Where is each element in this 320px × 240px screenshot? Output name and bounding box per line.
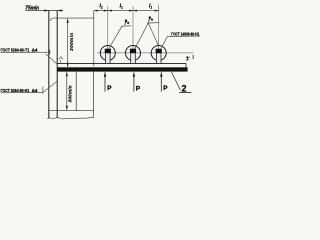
dimension line top (stud spacing) bbox=[94, 10, 159, 12]
beam end thickness callout dot bbox=[186, 56, 188, 58]
weld label 1 leader bbox=[46, 54, 58, 64]
svg-text:P: P bbox=[107, 85, 112, 92]
weld label 2 tick bbox=[42, 87, 44, 94]
dimension 75min line bbox=[26, 10, 64, 12]
svg-text:2: 2 bbox=[182, 83, 187, 93]
svg-text:75min: 75min bbox=[25, 6, 39, 12]
stud 1 head bbox=[105, 49, 111, 53]
weld mark A bbox=[125, 19, 130, 25]
weld shelf A bbox=[121, 25, 131, 27]
weld leader A (stud 1) bbox=[109, 26, 122, 48]
wall plate right edge bbox=[56, 11, 58, 119]
arrowheads 300min lower bbox=[66, 72, 68, 110]
arrowheads 300min upper bbox=[67, 18, 69, 67]
weld leader B to stud 3 bbox=[148, 23, 159, 46]
stud 2 circle bbox=[126, 46, 141, 61]
wall plate left edge bbox=[48, 11, 50, 119]
svg-text:Δ4: Δ4 bbox=[32, 88, 38, 93]
weld label right shelf bbox=[167, 35, 199, 37]
stud 3 head bbox=[156, 49, 162, 53]
gusset edge left bbox=[75, 72, 77, 111]
stud 3 body bbox=[156, 53, 161, 64]
arrowheads 75min (outside) bbox=[44, 9, 62, 11]
stud 2 centerline bbox=[132, 6, 134, 63]
load arrow P2 bbox=[133, 72, 135, 91]
svg-text:P: P bbox=[163, 85, 168, 92]
wall bottom break squiggle bbox=[47, 117, 93, 119]
weld shelf B bbox=[147, 22, 159, 24]
item 2 leader bbox=[172, 72, 181, 90]
svg-text:300min: 300min bbox=[69, 33, 74, 51]
svg-text:ГОСТ 5264-80-Н1: ГОСТ 5264-80-Н1 bbox=[1, 88, 30, 93]
weld mark B bbox=[149, 16, 154, 22]
weld leader B to stud 2 bbox=[135, 23, 149, 49]
beam end thickness callout tick bbox=[192, 55, 194, 60]
break line bottom bbox=[49, 110, 94, 112]
beam end thickness callout arrow bbox=[186, 56, 189, 60]
load arrow P3 bbox=[160, 72, 162, 91]
weld label 2 shelf bbox=[1, 92, 43, 94]
beam flange plate (blackened section) bbox=[57, 67, 187, 71]
break line top (with hook) bbox=[51, 18, 94, 21]
item 2 underline bbox=[179, 91, 191, 93]
svg-text:ГОСТ 14806-80-Н1: ГОСТ 14806-80-Н1 bbox=[171, 31, 199, 36]
weld label 1 arrow mark bbox=[59, 57, 63, 60]
stud 2 body bbox=[131, 53, 136, 64]
stud 2 head bbox=[130, 49, 136, 53]
dimension 300min upper line bbox=[67, 18, 69, 67]
weld label 1 tick bbox=[49, 49, 51, 54]
gusset edge right bbox=[93, 72, 95, 118]
stud 1 circle bbox=[100, 46, 115, 61]
stud 1 body bbox=[106, 53, 111, 64]
beam end edge bbox=[185, 63, 187, 67]
weld label right leader bbox=[161, 36, 167, 48]
stud 3 centerline bbox=[158, 5, 160, 64]
stud 1 centerline bbox=[107, 6, 109, 63]
break line top vertical bbox=[93, 11, 95, 67]
weld label 2 leader bbox=[43, 81, 57, 93]
load arrow P1 bbox=[104, 72, 106, 91]
svg-text:P: P bbox=[136, 85, 141, 92]
svg-text:Δ4: Δ4 bbox=[32, 48, 38, 53]
dimension 300min lower line bbox=[66, 72, 68, 110]
arrowheads top dimension bbox=[94, 10, 159, 12]
svg-text:300min: 300min bbox=[67, 85, 72, 102]
centerline horizontal through studs bbox=[97, 52, 193, 54]
weld label 1 shelf bbox=[1, 51, 50, 53]
stud 3 circle bbox=[151, 46, 166, 61]
beam top line bbox=[57, 62, 186, 64]
svg-text:ГОСТ 5264-80-Т1: ГОСТ 5264-80-Т1 bbox=[1, 47, 30, 52]
